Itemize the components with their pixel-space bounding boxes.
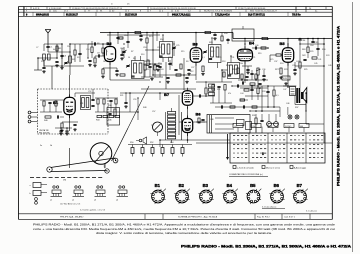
long wire AF to output xyxy=(262,85,289,87)
AF coupling cluster xyxy=(193,82,232,103)
svg-text:12.80.06.77.21.04.63.04.205.36: 12.80.06.77.21.04.63.04.205.36J.205.63.1… xyxy=(72,8,123,10)
capacitor C2 xyxy=(42,67,46,73)
AF cluster 3 xyxy=(240,85,275,107)
svg-text:C36: C36 xyxy=(262,69,265,71)
svg-text:6,42,11: 6,42,11 xyxy=(33,8,40,10)
svg-text:FONO: FONO xyxy=(285,126,291,128)
svg-text:C29: C29 xyxy=(218,57,221,59)
svg-text:COMMUTATORE DI POSIZIONE (e.): COMMUTATORE DI POSIZIONE (e.) xyxy=(229,173,263,176)
svg-text:R16: R16 xyxy=(226,65,229,67)
wire B3 bottom xyxy=(195,62,197,75)
coil S2 xyxy=(69,56,76,63)
right area wires extra xyxy=(295,43,325,67)
svg-text:S25: S25 xyxy=(270,59,273,61)
capacitor C1 xyxy=(46,46,53,52)
svg-text:R30: R30 xyxy=(322,49,325,51)
svg-text:dista magico: V. sotto codice: dista magico: V. sotto codice di tension… xyxy=(96,232,273,235)
svg-text:C55: C55 xyxy=(133,99,136,101)
svg-text:a2: a2 xyxy=(72,200,74,202)
svg-text:SCHEMA DI PRINCIPIO - Ap: SCHEMA DI PRINCIPIO - App. HI 460 A xyxy=(178,216,218,219)
resistor R9 xyxy=(144,60,149,66)
svg-text:R24: R24 xyxy=(280,63,283,65)
mid band extra parts xyxy=(118,32,158,60)
cluster below B4 extra xyxy=(240,74,268,89)
switch matrix contacts xyxy=(233,135,323,158)
tube socket B6 xyxy=(269,183,284,204)
tuning gang CV xyxy=(122,47,127,58)
padder C20 xyxy=(172,41,176,56)
resistor R27 xyxy=(275,68,283,79)
svg-text:a3: a3 xyxy=(94,200,96,202)
svg-text:OM: OM xyxy=(252,126,256,128)
resistor stack S40 xyxy=(209,84,215,95)
svg-text:R37: R37 xyxy=(295,107,298,109)
svg-text:B2: B2 xyxy=(179,183,185,188)
svg-text:FM 460 RA: FM 460 RA xyxy=(39,132,50,135)
svg-text:2M2: 2M2 xyxy=(302,55,306,57)
svg-text:C48: C48 xyxy=(210,119,213,121)
svg-text:R63: R63 xyxy=(302,49,305,51)
capacitor C30 xyxy=(187,69,191,75)
svg-text:R34: R34 xyxy=(224,33,227,35)
svg-text:83.25.26.27: 83.25.26.27 xyxy=(66,14,79,16)
svg-text:5.2 Comm. gamme - t.1 t.: 5.2 Comm. gamme - t.1 t.2 t.3 xyxy=(80,208,105,211)
svg-text:S31: S31 xyxy=(120,95,123,97)
svg-text:C32: C32 xyxy=(238,59,241,61)
svg-text:OC: OC xyxy=(234,126,238,128)
capacitor C3 xyxy=(60,55,66,57)
resistor R1 xyxy=(56,46,62,51)
svg-text:B4: B4 xyxy=(227,183,233,188)
svg-text:47k: 47k xyxy=(228,93,231,95)
svg-text:5.1 Lato attacco: 5.1 Lato attacco xyxy=(262,206,277,209)
svg-text:B2: B2 xyxy=(107,41,113,46)
tube socket B3 xyxy=(198,183,213,204)
svg-text:R54: R54 xyxy=(170,142,173,144)
wire B2 cathode down xyxy=(103,62,117,81)
svg-text:R8: R8 xyxy=(97,43,99,45)
svg-text:C7: C7 xyxy=(36,47,38,49)
B2 left parts xyxy=(88,42,104,56)
parts table header xyxy=(19,3,333,16)
trimmer C28 xyxy=(203,50,207,53)
svg-text:C22: C22 xyxy=(168,57,171,59)
resistor R2 xyxy=(74,44,76,62)
svg-text:B5: B5 xyxy=(250,183,256,188)
output transformer xyxy=(290,87,301,104)
IF cluster mid xyxy=(95,89,120,112)
wire B1 anode xyxy=(70,89,96,97)
pulley tension xyxy=(105,169,109,173)
resistor row R50-R55 xyxy=(128,142,192,157)
svg-text:R33: R33 xyxy=(262,91,265,93)
svg-text:C17 S12 B150 t.1 t.2 t.: C17 S12 B150 t.1 t.2 t.3 xyxy=(60,203,80,206)
svg-text:50: 50 xyxy=(128,57,130,59)
wire to B7 xyxy=(150,92,182,100)
svg-text:C14: C14 xyxy=(124,35,127,37)
svg-text:7.72,26,4-47,4: 7.72,26,4-47,4 xyxy=(215,13,230,16)
resistor R5 xyxy=(101,69,105,78)
trimmer C16 xyxy=(126,65,130,68)
fuse box below B5 xyxy=(282,76,290,85)
value labels xyxy=(36,43,329,97)
coil S1 xyxy=(43,54,50,66)
pointer vertical xyxy=(69,148,71,168)
wires around B6 xyxy=(179,107,205,140)
svg-text:C25: C25 xyxy=(176,45,179,47)
svg-text:R31: R31 xyxy=(217,89,220,91)
svg-text:a4: a4 xyxy=(116,200,118,202)
tube B5 xyxy=(280,41,294,66)
svg-text:C49: C49 xyxy=(328,65,331,67)
ratio detector cluster xyxy=(81,89,95,110)
node dots input xyxy=(56,43,71,67)
svg-text:5: 5 xyxy=(262,152,264,156)
oscillator coil T2 xyxy=(159,35,172,62)
svg-text:4.15.80.03.63: 4.15.80.03.63 xyxy=(49,8,62,10)
switch matrix outline xyxy=(230,133,325,163)
label UNITA RF FM xyxy=(39,129,50,134)
top bus feed resistors xyxy=(135,31,268,41)
svg-text:C52: C52 xyxy=(88,91,91,93)
svg-text:W.B. 71.84 G1.21 23,24,25,27: W.B. 71.84 G1.21 23,24,25,27 xyxy=(250,11,278,13)
switch comm caption xyxy=(80,208,105,211)
svg-text:PHILIPS SpA -: PHILIPS SpA - MILANO xyxy=(60,216,84,219)
selector arrow xyxy=(226,134,229,160)
svg-text:220: 220 xyxy=(67,46,70,48)
electrolytic C60 C61 xyxy=(267,114,279,126)
tube socket B7 xyxy=(292,183,307,204)
svg-text:B7: B7 xyxy=(297,183,303,188)
B1 cathode network xyxy=(60,115,78,132)
dial baseline xyxy=(30,178,104,182)
svg-text:C24: C24 xyxy=(157,47,160,49)
svg-text:C14: C14 xyxy=(86,49,89,51)
svg-text:W.276,74 1, 9,7,.4 91,76,80626: W.276,74 1, 9,7,.4 91,76,80626 xyxy=(204,11,233,13)
capacitor C33 xyxy=(250,70,253,80)
input cluster wires xyxy=(38,44,70,75)
right side parts row xyxy=(303,38,319,61)
svg-text:0,1: 0,1 xyxy=(202,57,205,59)
svg-text:R50: R50 xyxy=(130,142,133,144)
svg-text:C19: C19 xyxy=(120,48,123,50)
discriminator horizontal xyxy=(141,88,196,90)
svg-text:C31: C31 xyxy=(231,57,234,59)
svg-text:R52: R52 xyxy=(150,142,153,144)
tube socket B5 xyxy=(246,183,261,204)
parts table row 2 values xyxy=(26,11,318,13)
tube B1 xyxy=(53,94,75,118)
wire HT bus top xyxy=(100,33,332,39)
svg-text:B6: B6 xyxy=(274,183,280,188)
svg-text:B3: B3 xyxy=(203,183,209,188)
antenna xyxy=(45,30,51,46)
grid components B2 xyxy=(93,53,104,68)
IF transformer T4 xyxy=(228,56,240,79)
svg-text:R23: R23 xyxy=(284,69,287,71)
svg-text:corte + una banda ultracorta F: corte + una banda ultracorta FM. Media f… xyxy=(33,228,336,231)
dial cord belt xyxy=(51,158,117,172)
svg-text:B5: B5 xyxy=(280,41,286,46)
trimmer C4 xyxy=(64,62,68,65)
wire B5 vertical xyxy=(287,38,289,88)
svg-text:5b: 5b xyxy=(50,145,52,147)
FM discriminator cluster xyxy=(141,63,163,80)
extra junction dots xyxy=(61,32,324,112)
svg-text:0,5: 0,5 xyxy=(276,95,279,97)
AGC line parts xyxy=(84,74,196,84)
caps near FM box label xyxy=(55,127,72,135)
pointer line xyxy=(112,86,150,161)
wire to band switch xyxy=(34,57,42,70)
feedback network xyxy=(215,105,280,108)
ladder side wires xyxy=(166,112,182,140)
IF transformer T3 xyxy=(209,38,222,68)
svg-text:a1: a1 xyxy=(50,200,52,202)
capacitor C13 xyxy=(115,70,119,76)
svg-text:980A4,93.82: 980A4,93.82 xyxy=(36,13,50,16)
svg-text:R62: R62 xyxy=(147,61,150,63)
svg-text:Marcia in senso: Marcia in senso xyxy=(266,167,281,169)
svg-text:12.80.27.4.63.03.205.36.80.06: 12.80.27.4.63.03.205.36.80.06 xyxy=(238,8,266,10)
extra tiny labels band xyxy=(124,35,331,73)
loudspeaker xyxy=(301,88,307,103)
svg-text:946,N.7,74,3,4,5,1: 946,N.7,74,3,4,5,1 xyxy=(172,13,191,16)
tube socket B4 xyxy=(222,183,237,204)
side rotated title xyxy=(337,25,341,186)
svg-text:R39: R39 xyxy=(252,115,255,117)
svg-text:A-Ancoraggio: A-Ancoraggio xyxy=(294,166,307,169)
svg-text:C45: C45 xyxy=(314,63,317,65)
grid stopper R26 xyxy=(270,54,282,62)
svg-text:S22: S22 xyxy=(211,51,214,53)
wire bus upper second xyxy=(107,34,160,36)
detector parts row2 xyxy=(221,33,269,50)
svg-text:S16: S16 xyxy=(141,54,144,56)
svg-text:R18: R18 xyxy=(222,61,225,63)
mid vertical wires xyxy=(141,33,288,118)
wire B2 anode xyxy=(109,32,111,47)
resistor R60 xyxy=(91,41,93,58)
capacitor C62 xyxy=(88,60,92,66)
svg-text:C37: C37 xyxy=(274,61,277,63)
svg-text:4k7: 4k7 xyxy=(53,49,56,51)
capacitor C5 xyxy=(55,61,59,67)
parts table row 3 values xyxy=(26,13,301,16)
description paragraph xyxy=(33,223,336,235)
tube B2 xyxy=(104,41,115,65)
tube socket B2 xyxy=(174,183,189,204)
svg-text:R3: R3 xyxy=(41,61,43,63)
switch detail units xyxy=(51,186,129,197)
pulley left xyxy=(47,167,52,172)
model title line xyxy=(181,245,352,249)
capacitor C38 xyxy=(293,62,297,75)
svg-text:PHILIPS RADIO - Modl. B1 200/A: PHILIPS RADIO - Modl. B1 200/A, B1 271/A… xyxy=(33,223,336,226)
wire mains xyxy=(196,38,332,143)
socket note xyxy=(262,206,285,209)
svg-text:R21: R21 xyxy=(252,57,255,59)
svg-text:10,9 77.80 57.21: 10,9 77.80 57.21 xyxy=(248,14,266,16)
svg-text:C27: C27 xyxy=(191,67,194,69)
svg-text:C47: C47 xyxy=(283,89,286,91)
connector terminals xyxy=(28,111,37,123)
cord spring xyxy=(104,164,106,168)
heater wiring xyxy=(159,139,230,147)
capacitor C35 xyxy=(311,38,319,44)
tuning drum xyxy=(90,143,112,165)
FM RF unit dashed box xyxy=(38,89,109,134)
svg-text:10k: 10k xyxy=(240,63,243,65)
tube B3 xyxy=(190,42,202,66)
wire B3 top xyxy=(195,32,197,48)
table cell dividers xyxy=(25,7,327,17)
diode detector cluster xyxy=(221,66,252,77)
svg-text:R25: R25 xyxy=(304,69,307,71)
osc right parts xyxy=(168,58,184,90)
svg-text:C57: C57 xyxy=(152,111,155,113)
capacitor C50 xyxy=(57,115,64,118)
B6 right parts xyxy=(179,95,207,135)
svg-text:Cod. B 27 J: Cod. B 27 J xyxy=(284,217,295,219)
AF cluster 2 xyxy=(232,84,268,100)
svg-text:1M: 1M xyxy=(63,180,66,182)
svg-text:C44: C44 xyxy=(240,93,243,95)
svg-text:R15: R15 xyxy=(181,51,184,53)
svg-text:C42: C42 xyxy=(296,61,299,63)
svg-text:PHILIPS RADIO - Modl. B1 2: PHILIPS RADIO - Modl. B1 200/A, B1 271/A… xyxy=(181,245,352,249)
svg-text:R11: R11 xyxy=(146,69,149,71)
capacitor C6 xyxy=(78,44,81,62)
svg-text:FM: FM xyxy=(269,126,272,128)
svg-text:B6: B6 xyxy=(196,112,202,117)
switch detail labels xyxy=(50,200,118,206)
resistor R28 xyxy=(299,44,301,88)
switch detail left block xyxy=(30,183,48,205)
strip note xyxy=(306,211,317,213)
svg-text:R7: R7 xyxy=(131,51,133,53)
svg-text:PHILIPS RADIO - Modl. B1 2: PHILIPS RADIO - Modl. B1 200/A, B1 271/A… xyxy=(337,25,341,186)
wire B4 top xyxy=(244,38,246,49)
svg-text:Fog. S1 F/Z 2: Fog. S1 F/Z 2 xyxy=(257,217,271,219)
tuning indicator xyxy=(151,122,163,136)
pulley right xyxy=(113,158,118,163)
svg-text:R41: R41 xyxy=(80,103,83,105)
svg-text:R29: R29 xyxy=(310,51,313,53)
svg-text:20.50.04.63.03.60.78.07.107.6.: 20.50.04.63.03.60.78.07.107.6.10.4.63.23… xyxy=(150,8,196,10)
svg-text:R46: R46 xyxy=(108,120,111,122)
parts table row 1 values xyxy=(26,8,312,10)
wire osc coupling xyxy=(88,44,110,58)
svg-text:S28: S28 xyxy=(326,55,329,57)
svg-text:m: m xyxy=(111,3,113,5)
wire B1 anode riser xyxy=(52,66,70,89)
svg-text:C40: C40 xyxy=(255,45,258,47)
box S30 xyxy=(107,105,120,125)
small labels extra xyxy=(40,33,313,147)
svg-text:3.1 i-dei pos: 3.1 i-dei pos xyxy=(306,211,317,213)
svg-text:S13: S13 xyxy=(149,36,152,38)
earphone jack xyxy=(136,137,147,144)
svg-text:7/3.5 Ro: 7/3.5 Ro xyxy=(292,14,301,16)
svg-text:R44: R44 xyxy=(96,120,99,122)
terminal strip ladder xyxy=(168,108,176,143)
mains transformer box xyxy=(207,115,252,134)
wire gnd bus left xyxy=(44,66,84,70)
svg-text:R10: R10 xyxy=(158,63,161,65)
tube B7 xyxy=(164,88,193,109)
svg-text:C18: C18 xyxy=(143,47,146,49)
resistor row R44-R47 xyxy=(96,115,120,121)
svg-text:C63: C63 xyxy=(160,69,163,71)
wire net mid xyxy=(120,92,150,120)
pilot lamps xyxy=(288,115,299,119)
IF transformer S9 S10 xyxy=(131,56,144,79)
wire speaker leads xyxy=(283,86,306,105)
svg-text:S17: S17 xyxy=(186,61,189,63)
svg-text:B1: B1 xyxy=(155,183,161,188)
cluster below B4 xyxy=(238,70,268,85)
tube B4 xyxy=(238,41,255,65)
svg-text:R48: R48 xyxy=(143,107,146,109)
svg-text:R12: R12 xyxy=(190,71,193,73)
resistor R20 xyxy=(233,68,240,74)
label commutatore xyxy=(229,173,268,176)
svg-text:S5: S5 xyxy=(77,57,79,59)
svg-text:C41: C41 xyxy=(318,59,321,61)
switch legend xyxy=(233,166,307,170)
svg-text:25.27.63.23: 25.27.63.23 xyxy=(125,14,138,16)
capacitor C34 xyxy=(298,38,306,44)
switch caption boxes xyxy=(233,124,309,133)
B1 grid components xyxy=(40,100,64,112)
capacitor C21 xyxy=(156,65,160,71)
title strip xyxy=(19,214,333,220)
svg-text:C46: C46 xyxy=(286,103,289,105)
tube B6 xyxy=(182,112,201,137)
svg-text:R19: R19 xyxy=(258,53,261,55)
misc short wires xyxy=(44,44,324,143)
resistor R13 xyxy=(201,66,205,76)
wire osc section xyxy=(110,32,196,80)
svg-text:100,: 100, xyxy=(53,11,57,13)
svg-text:a-Tasti di comando: a-Tasti di comando xyxy=(237,166,255,169)
svg-text:C39: C39 xyxy=(292,65,295,67)
resistor R40 xyxy=(44,116,51,122)
tube socket B1 xyxy=(150,183,165,204)
svg-text:1M: 1M xyxy=(103,61,106,63)
volume pot R22 xyxy=(256,68,261,83)
wire B4 bottom xyxy=(244,62,246,80)
IF can outline above B4 xyxy=(232,26,254,41)
rectifier cluster xyxy=(250,110,280,124)
capacitor C58 xyxy=(124,93,128,108)
capacitor C12 xyxy=(116,33,124,45)
svg-text:C64: C64 xyxy=(310,45,313,47)
